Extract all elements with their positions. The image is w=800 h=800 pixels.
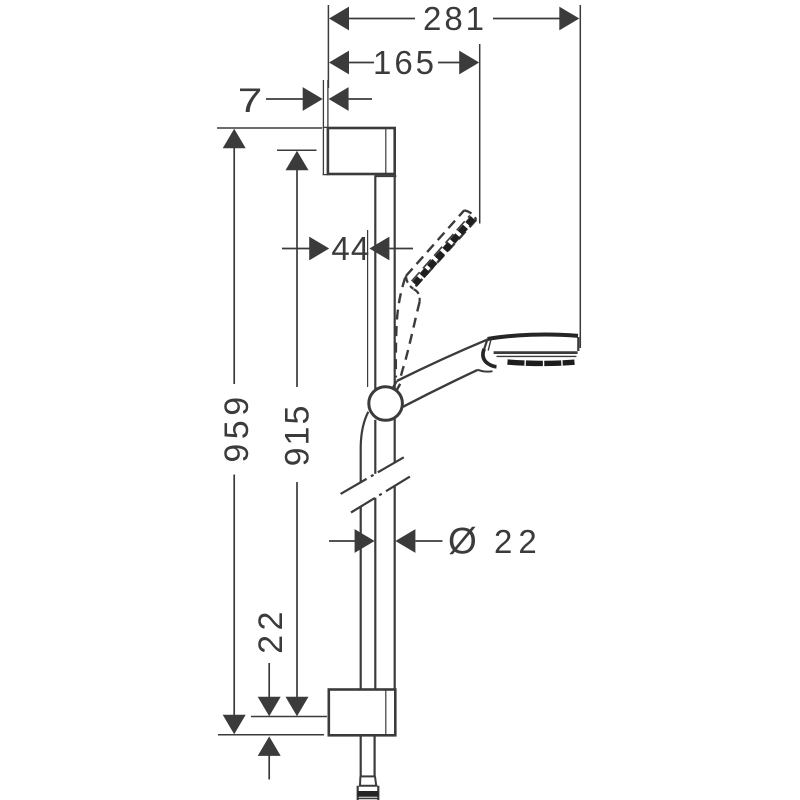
dimension 165 line	[348, 62, 374, 64]
dimension 44 right arrow (points left)	[369, 237, 389, 261]
dimension diameter 22 left tail	[329, 540, 355, 542]
hose nut knurl band	[358, 791, 379, 797]
dimension diameter 22 left arrow (points right)	[355, 529, 375, 553]
raised shower dashed handle left	[396, 278, 405, 378]
svg-text:959: 959	[218, 392, 256, 462]
raised shower dashed inner line	[412, 215, 470, 281]
dimension 281 left arrow	[329, 7, 349, 31]
dimension 959 line	[233, 147, 235, 384]
rail left edge	[374, 177, 376, 690]
hand shower spray band	[508, 362, 575, 363]
svg-text:4: 4	[331, 230, 349, 267]
extension line right of 281 (x=580.3)	[579, 5, 581, 348]
dimension 7 left tail	[266, 98, 303, 100]
hand shower handle bottom edge	[402, 370, 478, 407]
svg-text:Ø: Ø	[448, 521, 477, 562]
extension line bottom (y=734.8)	[218, 734, 324, 736]
slider stub	[393, 381, 397, 388]
slider pivot circle	[369, 387, 403, 421]
hand shower head face line	[497, 355, 577, 357]
raised shower dashed edge A	[406, 210, 464, 276]
dimension 7 left arrow (points right)	[303, 87, 323, 111]
extension line 915 top (y=150.2)	[277, 149, 317, 151]
hose left edge	[360, 507, 362, 690]
raised shower dashed edge B	[413, 220, 476, 289]
wall bracket top	[328, 128, 395, 174]
hand shower head left cap	[484, 339, 487, 349]
hose upper curve	[361, 412, 369, 483]
hand shower head top edge	[488, 335, 578, 339]
hose nut	[357, 786, 359, 800]
dimension 165 right arrow	[459, 51, 479, 75]
hand shower neck	[483, 349, 497, 367]
rail right edge	[394, 177, 396, 690]
dimension 22 down arrow	[258, 697, 281, 717]
extension line top (y=128)	[217, 127, 322, 129]
raised shower dashed bottom cap	[406, 276, 413, 289]
svg-text:22: 22	[252, 607, 290, 654]
dimension 915 top arrow	[286, 151, 309, 171]
dimension diameter 22 right arrow (points left)	[395, 529, 415, 553]
dimension 959 bottom arrow	[223, 715, 246, 735]
svg-text:7: 7	[238, 82, 263, 120]
raised shower dashed spray band	[415, 218, 473, 284]
raised shower dashed neck	[414, 289, 420, 302]
dimension 22 up arrow	[258, 736, 281, 756]
hand shower neck lower join	[478, 370, 493, 372]
extension line right of 165 (x=479.7)	[479, 44, 481, 224]
hand shower head bottom edge	[494, 351, 578, 354]
raised shower dashed top cap	[464, 210, 476, 220]
dimension 7 right tail	[349, 98, 372, 100]
hose collar	[359, 776, 361, 785]
svg-text:281: 281	[423, 0, 487, 37]
hand shower head right face	[577, 337, 579, 351]
wall bracket bottom inner line	[385, 690, 387, 736]
wall bracket top clamp line	[374, 175, 396, 177]
dimension 44 left arrow (points right)	[309, 237, 329, 261]
dimension 915 bottom arrow	[286, 697, 309, 717]
dimension 22 line	[268, 663, 270, 698]
extension line rail end (y=716.5)	[251, 716, 327, 718]
dimension 281 line	[348, 18, 415, 20]
extension line left (wall face, x=328.6)	[327, 5, 329, 88]
rail break line upper	[341, 457, 405, 494]
wall bracket bottom	[329, 690, 396, 736]
hose below bracket right	[374, 735, 376, 776]
svg-text:4: 4	[351, 230, 369, 267]
hose below bracket left	[360, 735, 362, 776]
wall bracket top inner line	[385, 128, 387, 174]
svg-text:915: 915	[279, 404, 317, 467]
dimension 915 line	[296, 169, 298, 387]
hand shower handle top edge	[397, 339, 488, 381]
dimension diameter 22 right tail	[415, 540, 442, 542]
dimension 22 bottom tail	[268, 755, 270, 780]
dimension 7 extension lines	[322, 80, 324, 128]
dimension 165 left arrow	[329, 51, 349, 75]
dimension 44 extension line	[367, 230, 369, 387]
dimension 281 right arrow	[559, 7, 579, 31]
dimension 44 left tail	[282, 248, 310, 250]
svg-text:165: 165	[373, 44, 437, 81]
raised shower dashed handle right	[400, 302, 419, 379]
dimension 7 right arrow (points left)	[329, 87, 349, 111]
hose end line	[360, 775, 376, 777]
hose nut lower line	[358, 797, 379, 799]
rail break line lower	[351, 475, 413, 513]
wall plate top	[323, 127, 329, 175]
dimension 959 top arrow	[223, 129, 246, 149]
svg-text:22: 22	[494, 523, 543, 560]
dimension 44 right tail	[389, 248, 413, 250]
